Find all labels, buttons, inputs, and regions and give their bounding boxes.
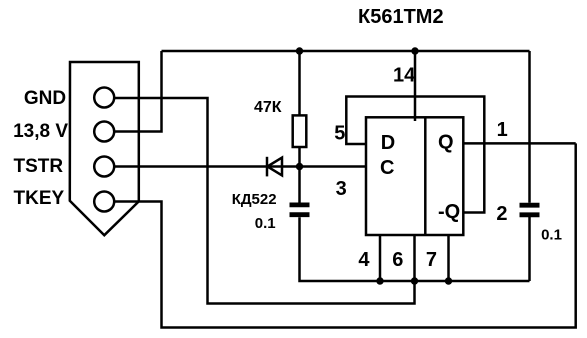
diode VD1 triangle <box>267 158 282 176</box>
IC internal divider <box>424 117 427 235</box>
wire IC pin4 stub <box>379 235 382 281</box>
wire C1 bottom to pins 4-6-7 rail <box>300 217 530 281</box>
svg-text:C: C <box>380 157 394 179</box>
capacitor C2 bottom plate <box>520 212 540 217</box>
junction pin14 / top rail <box>411 47 418 54</box>
wire feedback -Q to D input <box>346 97 484 213</box>
svg-text:14: 14 <box>393 65 416 87</box>
wire 13,8V pin to top rail <box>115 51 162 132</box>
capacitor C2 top plate <box>520 203 540 208</box>
svg-text:TKEY: TKEY <box>14 188 65 209</box>
svg-text:6: 6 <box>392 249 403 271</box>
svg-text:-Q: -Q <box>438 201 460 223</box>
wire top supply rail <box>162 50 530 53</box>
svg-text:TSTR: TSTR <box>14 156 64 177</box>
svg-text:КД522: КД522 <box>232 191 277 208</box>
resistor R 47K body <box>293 115 307 147</box>
wire Q output pin1 <box>463 142 575 145</box>
connector XP1 body <box>70 62 139 235</box>
wire IC pin7 stub <box>447 235 450 281</box>
wire TSTR pin to diode and IC pin C <box>115 165 366 168</box>
capacitor C1 top plate <box>290 202 310 207</box>
connector pin circle TKEY <box>94 192 114 212</box>
wire resistor bottom to diode node <box>298 147 301 203</box>
svg-text:7: 7 <box>426 249 437 271</box>
junction diode node <box>296 163 303 170</box>
svg-text:0.1: 0.1 <box>541 226 562 243</box>
svg-text:К561ТМ2: К561ТМ2 <box>358 6 444 28</box>
svg-text:D: D <box>381 132 395 154</box>
svg-text:1: 1 <box>497 119 508 141</box>
IC DD1 body К561ТМ2 <box>366 117 463 235</box>
wire pin14 from top rail <box>414 51 417 121</box>
svg-text:3: 3 <box>336 178 347 200</box>
wire right cap branch from rail to C2 and down to pins rail <box>528 51 531 281</box>
svg-text:GND: GND <box>24 88 66 109</box>
diode VD1 cathode bar <box>266 157 269 177</box>
junction resistor / top rail <box>296 47 303 54</box>
svg-text:13,8 V: 13,8 V <box>13 121 68 142</box>
svg-text:0.1: 0.1 <box>255 215 276 232</box>
connector pin circle TSTR <box>94 157 114 177</box>
svg-text:47К: 47К <box>254 99 282 116</box>
connector pin circle GND <box>94 88 114 108</box>
capacitor C1 bottom plate <box>290 212 310 217</box>
wire IC pin6 stub <box>413 235 416 281</box>
wire resistor top from rail <box>298 51 301 115</box>
svg-text:5: 5 <box>334 122 345 144</box>
junction pin4 / rail <box>376 277 383 284</box>
wire GND pin down and to pin7 rail <box>115 98 415 304</box>
svg-text:2: 2 <box>496 203 507 225</box>
junction pin6 / rail <box>411 277 418 284</box>
junction pin7 / rail <box>445 277 452 284</box>
wire TKEY pin down to bottom rail and up to Q line <box>115 143 576 327</box>
svg-text:4: 4 <box>358 249 370 271</box>
svg-text:Q: Q <box>438 132 454 154</box>
connector pin circle 13,8V <box>94 122 114 142</box>
